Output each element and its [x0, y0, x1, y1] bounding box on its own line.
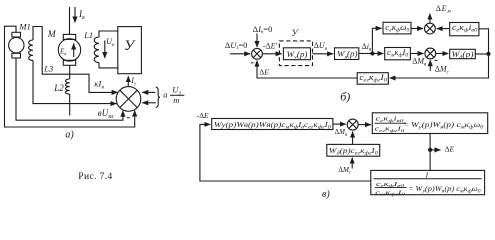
- svg-text:в): в): [322, 189, 330, 200]
- svg-text:Iя: Iя: [78, 9, 85, 21]
- svg-text:-ΔE: -ΔE: [197, 111, 209, 120]
- svg-text:Wя(p): Wя(p): [337, 50, 358, 61]
- svg-text:L2: L2: [53, 83, 64, 93]
- svg-text:Ея: Ея: [59, 48, 66, 57]
- svg-text:ΔIн=0: ΔIн=0: [253, 24, 273, 35]
- svg-text:ΔМя: ΔМя: [412, 57, 427, 68]
- svg-text:сегкфгI0: сегкфгI0: [359, 73, 387, 84]
- svg-text:ΔМс: ΔМс: [338, 166, 352, 176]
- svg-text:секфω0: секфω0: [385, 23, 409, 34]
- svg-text:У: У: [292, 28, 299, 38]
- svg-text:смкфI0: смкфI0: [387, 48, 408, 59]
- svg-text:Wу(p): Wу(p): [287, 50, 308, 61]
- svg-text:М1: М1: [18, 21, 31, 31]
- svg-text:вUял: вUял: [98, 108, 114, 120]
- svg-text:Δiя: Δiя: [362, 42, 372, 53]
- svg-text:У: У: [124, 38, 136, 54]
- svg-text:секфiв0: секфiв0: [376, 116, 405, 123]
- svg-text:ΔUя: ΔUя: [314, 41, 328, 52]
- svg-text:б): б): [340, 89, 350, 103]
- svg-text:Рис. 7.4: Рис. 7.4: [78, 172, 112, 182]
- svg-text:ΔE: ΔE: [445, 145, 455, 154]
- svg-text:сегкфгI0: сегкфгI0: [375, 126, 406, 133]
- svg-text:сегкфгI0: сегкфгI0: [375, 189, 406, 196]
- svg-text:ΔЕ: ΔЕ: [259, 68, 269, 77]
- svg-text:ΔUз=0: ΔUз=0: [225, 40, 248, 51]
- svg-text:-ΔЕ′: -ΔЕ′: [263, 42, 278, 51]
- svg-text:L3: L3: [43, 63, 53, 73]
- svg-text:ΔМя: ΔМя: [335, 128, 348, 138]
- svg-text:ΔЕм: ΔЕм: [436, 4, 452, 15]
- svg-text:I: I: [425, 170, 429, 179]
- svg-text:Wд(p)cегкфгI0: Wд(p)cегкфгI0: [329, 147, 379, 157]
- svg-text:= Wу(p)Wя(p) cмкфω0: = Wу(p)Wя(p) cмкфω0: [403, 121, 484, 131]
- svg-text:секфiв0: секфiв0: [452, 23, 478, 34]
- svg-text:секфIв0: секфIв0: [376, 181, 405, 188]
- svg-text:М: М: [47, 30, 57, 40]
- svg-text:a: a: [163, 89, 167, 99]
- svg-text:Uв: Uв: [106, 37, 115, 48]
- svg-text:а): а): [65, 129, 74, 140]
- svg-text:кIя: кIя: [94, 78, 104, 90]
- svg-text:m: m: [173, 95, 179, 105]
- svg-text:L1: L1: [83, 30, 93, 40]
- svg-text:= Wу(p)Wя(p) cмкфω0: = Wу(p)Wя(p) cмкфω0: [409, 185, 482, 195]
- svg-text:ΔМс: ΔМс: [435, 65, 450, 76]
- svg-text:Iу: Iу: [130, 76, 137, 87]
